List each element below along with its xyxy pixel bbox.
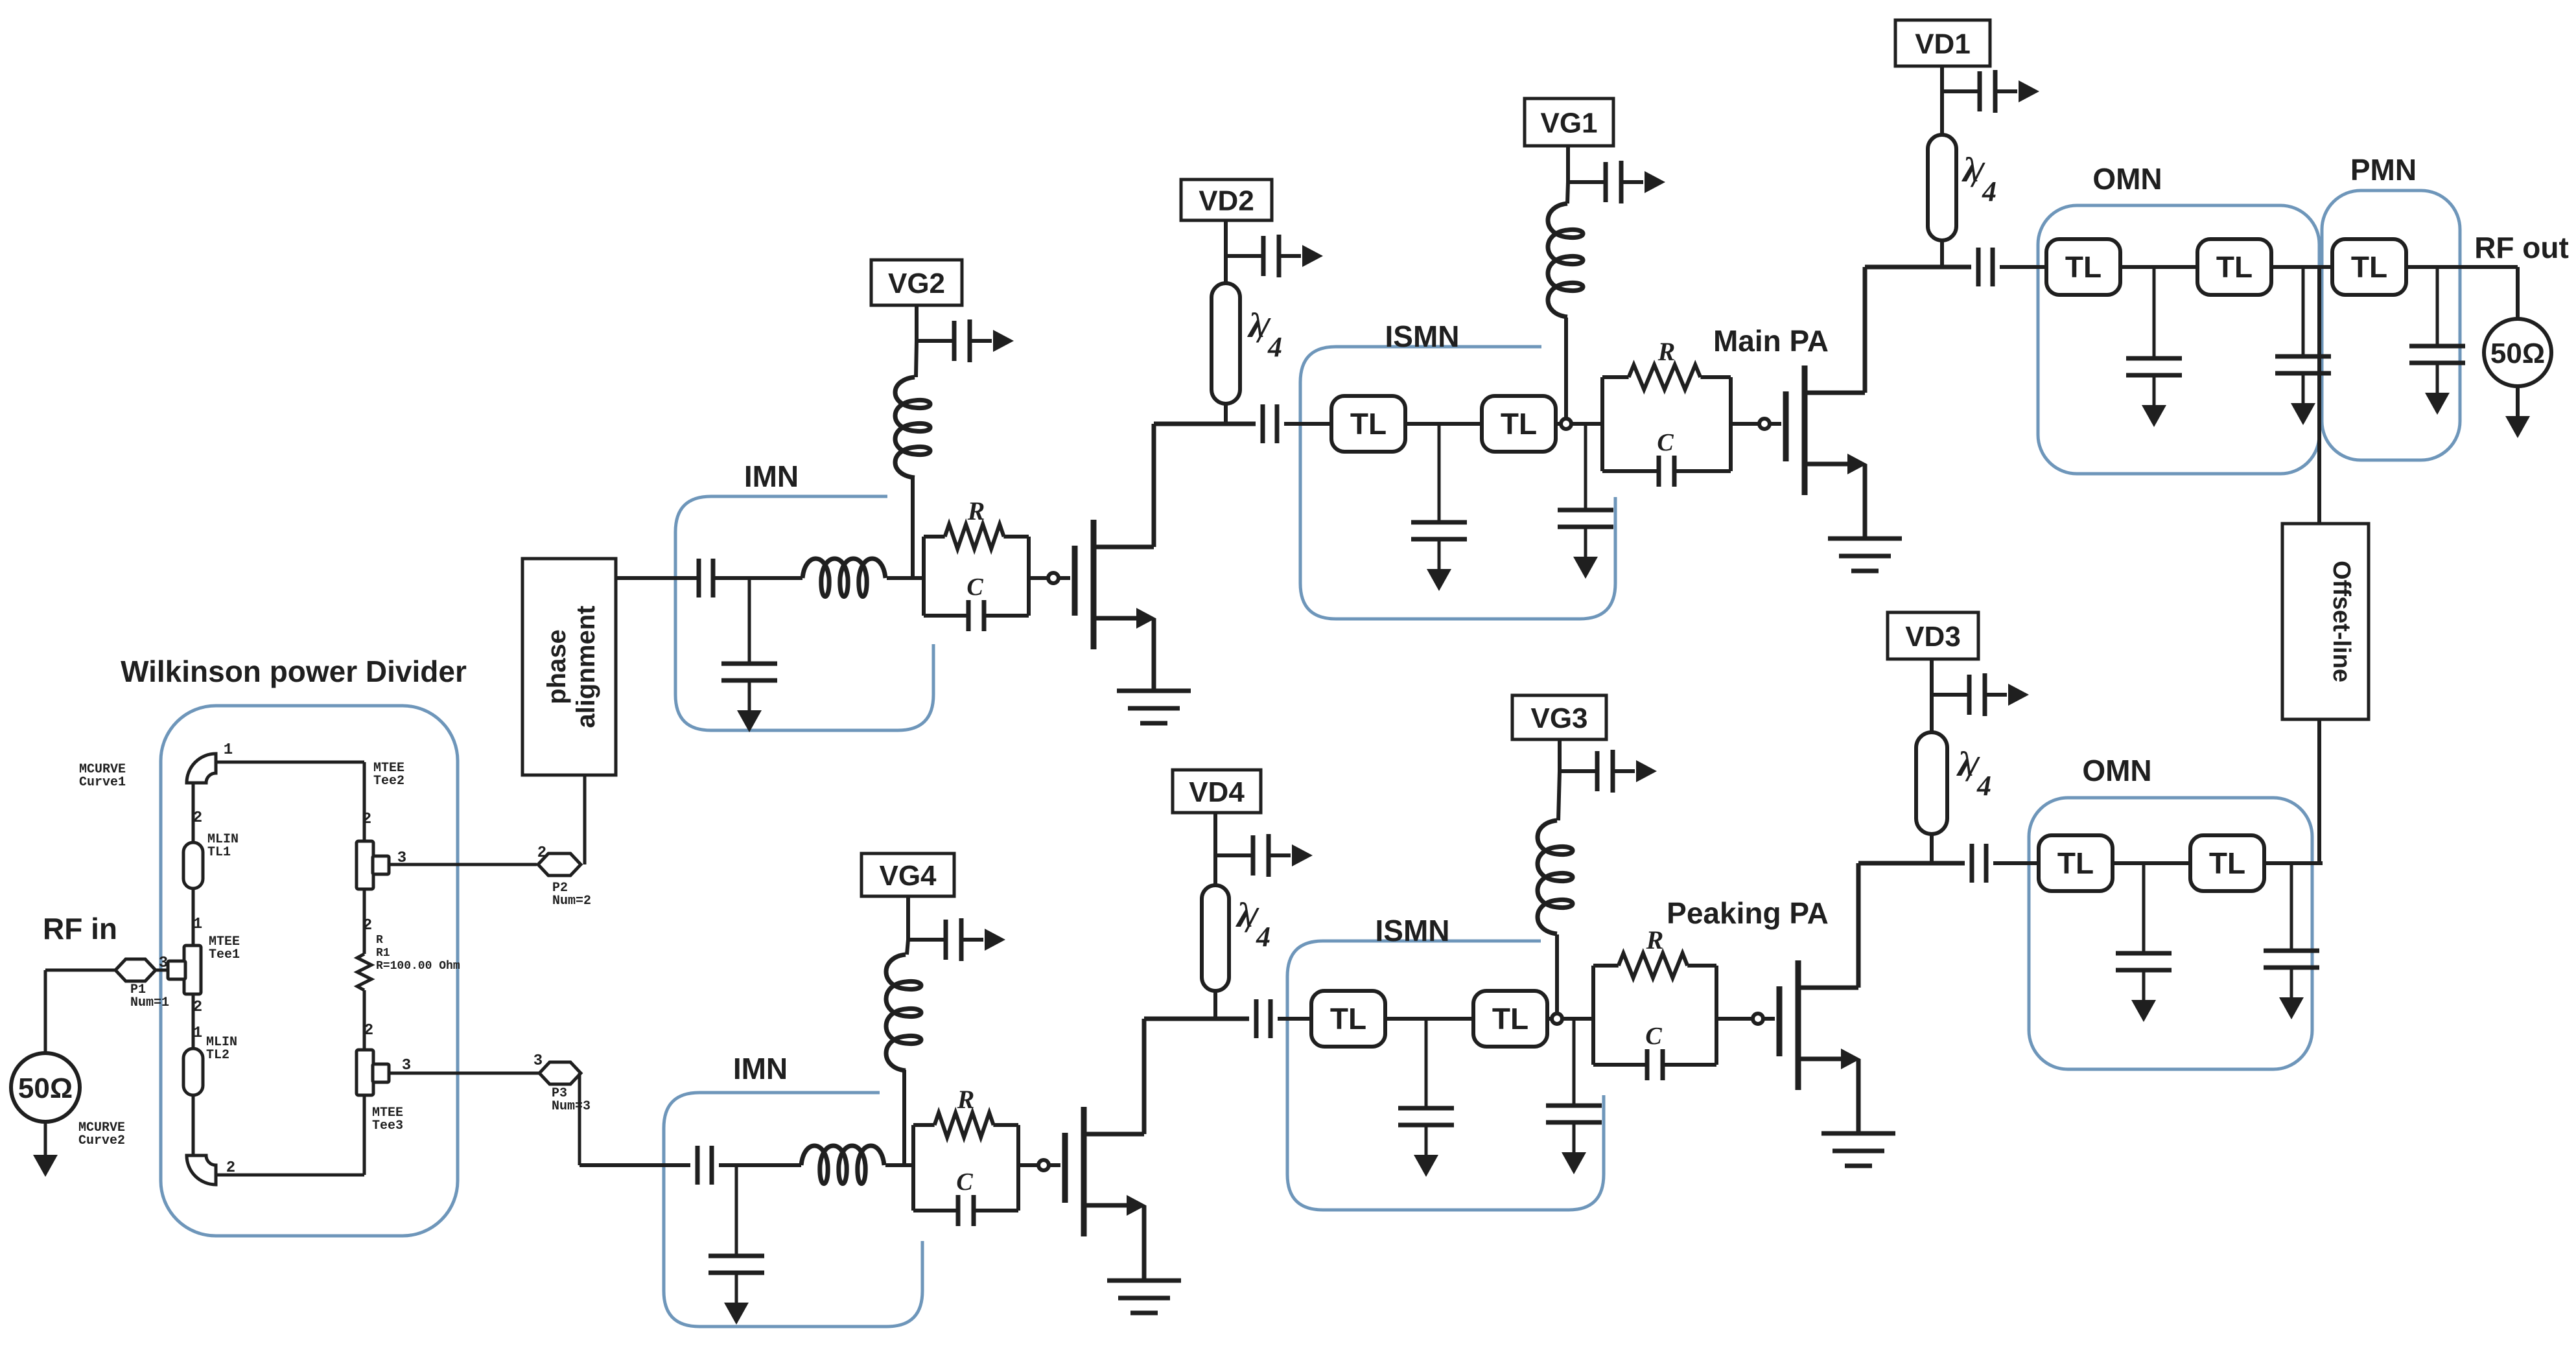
svg-text:VG3: VG3 bbox=[1530, 702, 1587, 734]
svg-text:ISMN: ISMN bbox=[1376, 914, 1450, 947]
svg-text:VG1: VG1 bbox=[1540, 107, 1597, 139]
svg-text:2: 2 bbox=[364, 1022, 373, 1039]
svg-text:VG2: VG2 bbox=[888, 268, 945, 299]
svg-text:Curve1: Curve1 bbox=[79, 775, 126, 790]
svg-text:1: 1 bbox=[193, 916, 202, 933]
svg-text:2: 2 bbox=[193, 999, 202, 1016]
svg-text:R: R bbox=[957, 1085, 975, 1114]
svg-text:Tee2: Tee2 bbox=[373, 774, 404, 789]
svg-text:VG4: VG4 bbox=[879, 860, 937, 892]
svg-text:1: 1 bbox=[224, 741, 233, 759]
svg-text:R=100.00 Ohm: R=100.00 Ohm bbox=[376, 960, 460, 973]
svg-text:R: R bbox=[376, 934, 383, 947]
svg-text:2: 2 bbox=[226, 1159, 235, 1177]
svg-text:TL: TL bbox=[1492, 1002, 1528, 1036]
svg-text:4: 4 bbox=[1256, 921, 1270, 953]
svg-text:TL1: TL1 bbox=[207, 845, 231, 860]
svg-text:TL: TL bbox=[2065, 250, 2102, 284]
svg-text:OMN: OMN bbox=[2092, 162, 2162, 196]
svg-text:VD4: VD4 bbox=[1189, 776, 1245, 808]
svg-text:4: 4 bbox=[1982, 176, 1996, 207]
svg-text:VD1: VD1 bbox=[1915, 28, 1971, 60]
svg-text:PMN: PMN bbox=[2350, 153, 2417, 187]
svg-text:2: 2 bbox=[363, 917, 372, 934]
svg-text:TL: TL bbox=[2209, 846, 2245, 880]
svg-text:IMN: IMN bbox=[733, 1052, 788, 1085]
svg-text:Num=1: Num=1 bbox=[130, 995, 169, 1010]
svg-text:50Ω: 50Ω bbox=[18, 1073, 73, 1104]
svg-text:OMN: OMN bbox=[2082, 754, 2151, 787]
svg-text:Offset-line: Offset-line bbox=[2328, 561, 2355, 682]
svg-text:3: 3 bbox=[533, 1052, 543, 1070]
svg-text:Main PA: Main PA bbox=[1713, 324, 1829, 358]
svg-text:VD3: VD3 bbox=[1905, 621, 1961, 653]
svg-text:TL: TL bbox=[2351, 250, 2387, 284]
svg-text:alignment: alignment bbox=[572, 606, 600, 728]
svg-text:Tee3: Tee3 bbox=[372, 1119, 403, 1133]
svg-text:TL: TL bbox=[2057, 846, 2094, 880]
svg-text:TL: TL bbox=[2216, 250, 2253, 284]
svg-text:Tee1: Tee1 bbox=[209, 947, 240, 962]
svg-text:2: 2 bbox=[362, 811, 371, 828]
svg-text:50Ω: 50Ω bbox=[2490, 338, 2545, 369]
svg-text:TL2: TL2 bbox=[206, 1048, 229, 1063]
svg-text:TL: TL bbox=[1350, 407, 1387, 441]
svg-text:Wilkinson power Divider: Wilkinson power Divider bbox=[121, 655, 467, 688]
svg-text:R1: R1 bbox=[376, 947, 390, 960]
svg-text:RF in: RF in bbox=[43, 912, 117, 945]
svg-text:ISMN: ISMN bbox=[1385, 319, 1460, 353]
svg-text:TL: TL bbox=[1330, 1002, 1366, 1036]
svg-text:C: C bbox=[966, 574, 983, 601]
svg-text:2: 2 bbox=[193, 809, 202, 827]
svg-text:Num=3: Num=3 bbox=[552, 1099, 591, 1114]
svg-text:C: C bbox=[1645, 1023, 1662, 1050]
svg-text:Curve2: Curve2 bbox=[78, 1133, 125, 1148]
svg-text:4: 4 bbox=[1267, 331, 1282, 363]
svg-text:Num=2: Num=2 bbox=[552, 894, 591, 909]
svg-text:IMN: IMN bbox=[744, 459, 799, 493]
svg-text:4: 4 bbox=[1976, 770, 1991, 802]
svg-text:3: 3 bbox=[159, 955, 168, 972]
svg-text:VD2: VD2 bbox=[1199, 185, 1254, 216]
svg-text:R: R bbox=[967, 496, 985, 526]
svg-text:phase: phase bbox=[543, 629, 571, 704]
svg-text:1: 1 bbox=[193, 1025, 202, 1042]
svg-text:R: R bbox=[1646, 925, 1664, 955]
svg-text:TL: TL bbox=[1501, 407, 1537, 441]
svg-text:C: C bbox=[956, 1168, 973, 1196]
svg-text:Peaking PA: Peaking PA bbox=[1667, 896, 1829, 930]
svg-text:RF out: RF out bbox=[2474, 231, 2569, 264]
svg-text:C: C bbox=[1657, 429, 1674, 456]
svg-text:R: R bbox=[1657, 337, 1676, 366]
